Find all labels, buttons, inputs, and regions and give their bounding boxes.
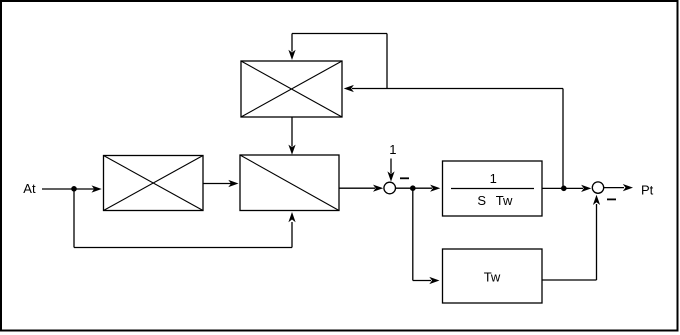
label 1 (constant input to S1) [389, 142, 396, 157]
svg-text:1: 1 [490, 171, 497, 186]
arrow into multiplier block left [92, 185, 102, 192]
arrow left into B3 right edge [344, 85, 354, 92]
wire input At to multiplier block [42, 188, 94, 190]
arrow down into B3 top [288, 50, 295, 60]
wire feedback from input node down and right to B2 bottom [74, 189, 292, 248]
wire B4 to summer S2 [542, 187, 583, 189]
svg-text:1: 1 [389, 142, 396, 157]
arrow into S2 left [581, 185, 591, 192]
multiplier block B1 (crossed box) [104, 156, 204, 211]
wire B1 to B2 [203, 183, 231, 185]
multiplier block B3 top (crossed box) [241, 61, 342, 117]
arrow into B4 left [430, 185, 440, 192]
washout block B5 Tw [443, 249, 543, 303]
divider block B2 (single diagonal box) [240, 155, 339, 211]
node junction on B4 output [561, 186, 567, 192]
summer S2 circle [592, 182, 603, 193]
arrow down into S1 top [387, 171, 394, 181]
svg-text:Tw: Tw [496, 193, 513, 208]
wire top self-loop of B3 [292, 34, 387, 89]
minus sign at S1 [400, 177, 409, 179]
svg-text:Tw: Tw [484, 270, 501, 285]
wire feedback vertical from output node up [562, 89, 564, 189]
label Pt [641, 182, 654, 197]
wire B2 to summer S1 [339, 187, 375, 189]
label At [23, 181, 36, 196]
arrow into divider block B2 left [228, 180, 238, 187]
arrow up into B2 bottom [288, 212, 295, 222]
svg-text:At: At [23, 181, 36, 196]
arrow into Tw block left [429, 277, 439, 284]
arrow toward Pt label [623, 184, 633, 191]
arrow up into S2 bottom [593, 195, 600, 205]
wire feedback horizontal into B3 right [352, 88, 563, 90]
wire B3 bottom to B2 top [291, 117, 293, 147]
summer S1 circle [384, 182, 396, 194]
arrow into summer S1 left [373, 185, 383, 192]
svg-text:S: S [477, 193, 486, 208]
wire from node after S1 down to Tw block [413, 188, 431, 280]
wire S1 to block B4 [396, 187, 433, 189]
minus sign at S2 [607, 198, 616, 200]
integrator block B4 1/(S Tw) [443, 161, 543, 216]
svg-text:Pt: Pt [641, 182, 654, 197]
node junction on input wire [71, 186, 77, 192]
wire B5 output right and up to S2 bottom [542, 204, 597, 280]
node junction after S1 [410, 185, 416, 191]
wire constant 1 down to summer S1 [390, 159, 392, 174]
wire S2 to output Pt [604, 187, 624, 189]
arrow down into B2 top [288, 145, 295, 155]
